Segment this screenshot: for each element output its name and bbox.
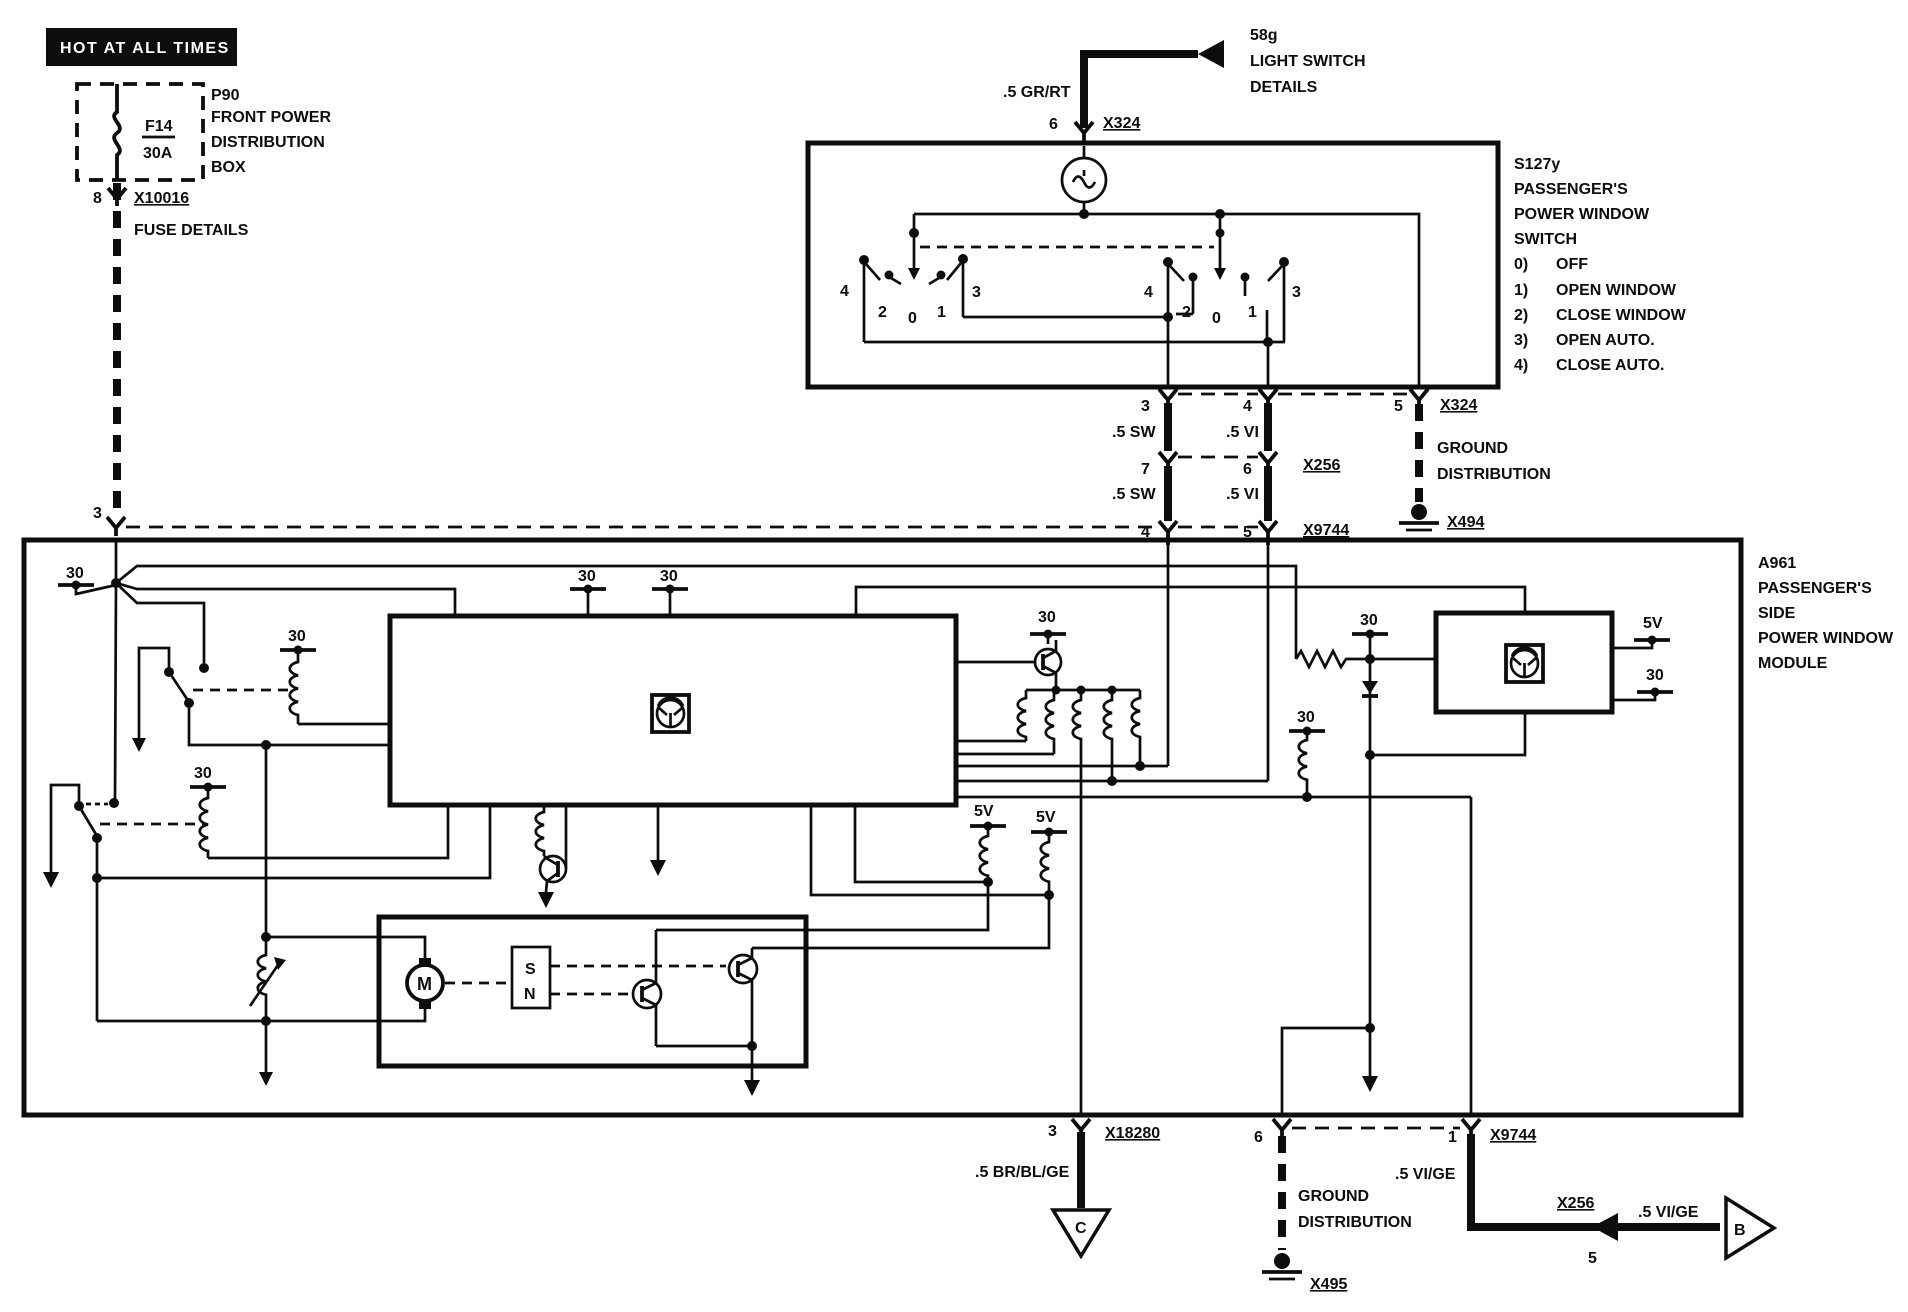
svg-text:30: 30 (578, 568, 596, 585)
svg-text:X9744: X9744 (1303, 522, 1349, 539)
wire: node down to ground tie (1369, 755, 1372, 1028)
svg-text:3: 3 (1292, 284, 1301, 301)
svg-text:1: 1 (937, 304, 946, 321)
connector X324 pin6 symbol (1075, 122, 1093, 143)
wire: node to logic box bottom (1370, 712, 1525, 755)
svg-text:S127y: S127y (1514, 156, 1560, 173)
wire: .5 VI segment (pin4 to X256) (1264, 403, 1272, 451)
svg-text:CLOSE WINDOW: CLOSE WINDOW (1556, 307, 1687, 324)
arrow on .5 VI/GE wire (1592, 1213, 1618, 1241)
svg-text:OPEN WINDOW: OPEN WINDOW (1556, 282, 1677, 299)
arrow terminal below Q2 (538, 892, 554, 908)
wire: coil K1 to controller (298, 723, 390, 726)
wire: T1 collector/emitter rail (655, 930, 658, 1046)
wire: arm output down to motor bottom rail (96, 878, 99, 1021)
svg-text:30: 30 (1297, 709, 1315, 726)
svg-text:OFF: OFF (1556, 256, 1588, 273)
motor M1 (407, 965, 443, 1001)
wire: 58g feed (heavy) (1080, 54, 1198, 128)
svg-text:4): 4) (1514, 357, 1528, 374)
horizontal resistor R30a (1296, 651, 1436, 667)
wire: resistor top bus (1026, 689, 1140, 692)
wire: .5 VI segment (X256 to X9744) (1264, 466, 1272, 521)
wire: pin3 feed into module (115, 540, 118, 583)
wire: switch supply rail (914, 214, 1419, 387)
svg-text:OPEN AUTO.: OPEN AUTO. (1556, 332, 1655, 349)
resistor R3 (1073, 690, 1081, 752)
hall sensor S/N box (512, 947, 550, 1008)
wire: T1 emitter link to T2 emitter (656, 1045, 752, 1048)
wire: .5 SW lead inside module (pin4 X9744) (1167, 540, 1170, 766)
svg-text:0: 0 (1212, 310, 1221, 327)
wire: left wiper feed (913, 214, 916, 233)
wire: controller to 5V-right node (811, 805, 1049, 895)
off-page triangle C (1053, 1210, 1109, 1256)
wire: 30 bus lower (to controller top) (116, 583, 455, 616)
svg-text:X10016: X10016 (134, 190, 189, 207)
wire: controller to 5V-left node (855, 805, 988, 882)
node: ground tie junction (1365, 1023, 1375, 1033)
svg-text:X324: X324 (1103, 115, 1140, 132)
svg-text:S: S (525, 961, 536, 978)
svg-text:CLOSE AUTO.: CLOSE AUTO. (1556, 357, 1664, 374)
svg-text:.5 VI/GE: .5 VI/GE (1638, 1204, 1699, 1221)
wire: relay2 mechanical link (dashed) (100, 823, 204, 826)
svg-text:C: C (1075, 1220, 1087, 1237)
right wiper arm (1219, 214, 1222, 268)
arrow terminal below relay1 pivot lead (132, 738, 146, 752)
svg-text:POWER WINDOW: POWER WINDOW (1514, 206, 1650, 223)
wire: left contact 3 drop (962, 263, 965, 317)
wire: R1 to controller (956, 740, 1026, 743)
wire: .5 SW segment (pin3 to X256) (1164, 403, 1172, 451)
wire: T2 emitter down through box (751, 980, 754, 1066)
wire: .5 SW segment (X256 to X9744) (1164, 466, 1172, 521)
wire: Q1 base from controller (956, 661, 1035, 664)
resistor R1 (1018, 690, 1026, 741)
svg-text:5V: 5V (1643, 615, 1663, 632)
svg-text:PASSENGER'S: PASSENGER'S (1514, 181, 1628, 198)
svg-text:X256: X256 (1303, 457, 1340, 474)
arrow terminal on stub (259, 1072, 273, 1086)
svg-text:DISTRIBUTION: DISTRIBUTION (1437, 466, 1551, 483)
svg-text:30: 30 (194, 765, 212, 782)
wire: 30 bus upper (to horizontal resistor) (116, 566, 1296, 659)
wire: mechanical link (dashed) (920, 246, 1214, 249)
resistor R2 (1046, 690, 1054, 754)
svg-text:30: 30 (1360, 612, 1378, 629)
svg-text:6: 6 (1254, 1129, 1263, 1146)
wire: R5 line controller to pin4 lead (956, 765, 1168, 768)
transistor T1 (633, 980, 661, 1008)
svg-text:.5 SW: .5 SW (1112, 486, 1156, 503)
arrow terminal below controller stub (650, 860, 666, 876)
relay 1 arm (169, 672, 189, 702)
svg-text:6: 6 (1243, 461, 1252, 478)
wire: Q1 emitter to resistor bus (1055, 673, 1058, 690)
wire: relay2 pivot lead to arrow (51, 785, 79, 872)
wire: 5V-right node to T2 collector (752, 895, 1049, 948)
wire: fused 30 feed (heavy dashed) (113, 183, 121, 516)
svg-text:3: 3 (972, 284, 981, 301)
svg-text:.5 GR/RT: .5 GR/RT (1003, 84, 1071, 101)
wire: .5 VI lead inside module (pin5 X9744) (1267, 540, 1270, 781)
right switch contact 3 (1279, 257, 1289, 267)
wire: T2 collector (751, 948, 754, 958)
wire: right4 drop to pin3 (1167, 266, 1170, 317)
resistor R4 (1104, 690, 1112, 781)
wire: R3 drop to pin 3 X18280 (1080, 752, 1083, 1115)
relay 1 pivot contact (164, 667, 174, 677)
right switch contact 2 (1189, 273, 1198, 282)
connector X324 pins below box (1159, 389, 1177, 406)
svg-text:N: N (524, 986, 536, 1003)
svg-text:F14: F14 (145, 118, 173, 135)
svg-text:DISTRIBUTION: DISTRIBUTION (1298, 1214, 1412, 1231)
left switch contact 3 (958, 254, 968, 264)
svg-text:30: 30 (1038, 609, 1056, 626)
relay 2 pivot contact (74, 801, 84, 811)
wire: pin3 lead inside S127y (1167, 317, 1170, 387)
svg-text:2: 2 (1182, 304, 1191, 321)
svg-text:4: 4 (1144, 284, 1153, 301)
svg-text:DETAILS: DETAILS (1250, 79, 1318, 96)
svg-text:BOX: BOX (211, 159, 246, 176)
transistor Q2 (540, 856, 566, 882)
svg-text:8: 8 (93, 190, 102, 207)
wire: relay1 arm output to controller (189, 703, 390, 745)
relay 1 fixed contact (199, 663, 209, 673)
svg-text:P90: P90 (211, 87, 240, 104)
wire: motor top rail (266, 937, 425, 958)
svg-text:SIDE: SIDE (1758, 605, 1796, 622)
ground X494 (1411, 504, 1427, 520)
svg-text:1: 1 (1448, 1129, 1457, 1146)
wire: lamp leads (1083, 146, 1086, 214)
lamp (switch illumination) (1062, 158, 1106, 202)
svg-text:.5 BR/BL/GE: .5 BR/BL/GE (975, 1164, 1070, 1181)
wire: Q1 collector (1055, 640, 1058, 651)
svg-text:30A: 30A (143, 145, 173, 162)
svg-text:4: 4 (1243, 398, 1252, 415)
wire: ground distribution drop pin6 (heavy dashed) (1278, 1136, 1286, 1250)
svg-text:6: 6 (1049, 116, 1058, 133)
wire: controller stub to arrow (657, 805, 660, 860)
wire: connector X9744 dashed link to pin 4 (126, 526, 1160, 529)
wire: link left4 to right3 (H2) (864, 341, 1285, 344)
svg-text:M: M (417, 974, 432, 994)
node: tap to motor bridge (261, 740, 271, 750)
resistor R9 (above Q2) (536, 805, 544, 856)
left switch contact 1 (937, 271, 946, 280)
wire: coil K2 to controller bottom (208, 805, 448, 858)
svg-text:GROUND: GROUND (1298, 1188, 1369, 1205)
svg-text:1): 1) (1514, 282, 1528, 299)
svg-text:1: 1 (1248, 304, 1257, 321)
svg-text:0: 0 (908, 310, 917, 327)
svg-text:7: 7 (1141, 461, 1150, 478)
wire: relay1 mechanical link (dashed) (193, 689, 292, 692)
wire: motor bottom rail (97, 1008, 425, 1021)
wire: 5V-left node to T1 collector (656, 882, 988, 930)
svg-text:X495: X495 (1310, 1276, 1347, 1293)
arrow to light switch details (1198, 40, 1224, 68)
svg-text:30: 30 (660, 568, 678, 585)
left switch contact 2 (885, 271, 894, 280)
left wiper arm (913, 233, 916, 268)
wire: junction down to relay2 fixed contact (115, 583, 116, 800)
wire: X9744 connector dashed outline (bottom) (1292, 1127, 1460, 1130)
svg-text:.5 SW: .5 SW (1112, 424, 1156, 441)
connector X256 pins (1159, 452, 1177, 470)
wire: arm output to controller bottom (97, 805, 490, 878)
label: HOT AT ALL TIMES box (46, 28, 237, 66)
relay coil K2 (200, 787, 208, 858)
transistor T2 (729, 955, 757, 983)
svg-text:FUSE DETAILS: FUSE DETAILS (134, 222, 249, 239)
node: right wiper junction (1215, 209, 1225, 219)
svg-text:X256: X256 (1557, 1195, 1594, 1212)
resistor R5 (1132, 690, 1140, 766)
wire: Q2 collector (544, 856, 546, 858)
svg-text:30: 30 (288, 628, 306, 645)
svg-text:5V: 5V (1036, 809, 1056, 826)
transistor Q1 (1035, 649, 1061, 675)
connector X9744 pin3 symbol (107, 517, 125, 536)
wire: stub below ground tie (1369, 1028, 1372, 1076)
svg-text:3: 3 (1048, 1123, 1057, 1140)
svg-text:GROUND: GROUND (1437, 440, 1508, 457)
fuse box P90 (dashed border) (77, 84, 203, 180)
ground X495 (1274, 1253, 1290, 1269)
variable resistor RV1 (258, 937, 266, 1021)
node: logic box lower feed (1365, 750, 1375, 760)
wire: relay1 pivot lead to arrow (139, 648, 169, 738)
svg-text:X324: X324 (1440, 397, 1477, 414)
svg-text:2: 2 (878, 304, 887, 321)
wire: pin1 drop (1470, 797, 1473, 1115)
svg-text:FRONT POWER: FRONT POWER (211, 109, 331, 126)
wire: tap down to motor top rail (265, 745, 268, 937)
wire: S output (dashed) to T2 base (550, 965, 726, 968)
right switch contact 4 (1163, 257, 1173, 267)
wire: controller low line to pin1 (956, 796, 1471, 799)
svg-text:3: 3 (93, 505, 102, 522)
svg-text:DISTRIBUTION: DISTRIBUTION (211, 134, 325, 151)
svg-text:3: 3 (1141, 398, 1150, 415)
wire: X324 connector dashed outline (1178, 393, 1258, 396)
wire: pin4 lead inside S127y (1267, 342, 1270, 387)
relay 2 fixed contact (109, 798, 119, 808)
relay 2 contact gap (dashes) (86, 803, 108, 806)
wire: N output (dashed) to T1 base (550, 993, 632, 996)
svg-text:MODULE: MODULE (1758, 655, 1828, 672)
svg-text:B: B (1734, 1222, 1746, 1239)
svg-text:A961: A961 (1758, 555, 1796, 572)
svg-text:.5 VI/GE: .5 VI/GE (1395, 1166, 1456, 1183)
wire: left contact 4 drop (863, 264, 866, 342)
diode D1 (1369, 659, 1372, 755)
svg-text:X9744: X9744 (1490, 1127, 1536, 1144)
node: 30 diode node (1365, 654, 1375, 664)
svg-text:30: 30 (66, 565, 84, 582)
svg-text:.5 VI: .5 VI (1226, 424, 1259, 441)
svg-text:30: 30 (1646, 667, 1664, 684)
left switch contact 4 (859, 255, 869, 265)
wire: ground tie to pin 6 (1282, 1028, 1370, 1115)
node: lamp junction (1079, 209, 1089, 219)
wire: .5 VI/GE to off-page B (heavy) (1467, 1134, 1720, 1227)
connector X10016 (108, 188, 126, 206)
svg-text:PASSENGER'S: PASSENGER'S (1758, 580, 1872, 597)
svg-text:2): 2) (1514, 307, 1528, 324)
wire: Q2 emitter stub (546, 881, 547, 892)
wire: stub below motor bottom rail (265, 1021, 268, 1072)
wire: 30 terminal to junction (76, 585, 116, 594)
svg-text:HOT AT ALL TIMES: HOT AT ALL TIMES (60, 40, 230, 57)
svg-text:X494: X494 (1447, 514, 1484, 531)
relay coil K1 (290, 650, 298, 724)
wire: R4 line controller to pin5 lead (956, 780, 1268, 783)
wire: R2 to controller (956, 753, 1054, 756)
wire: link left3 to right4 (H1) (963, 316, 1168, 319)
svg-text:4: 4 (840, 283, 849, 300)
relay 2 arm (79, 806, 97, 836)
svg-text:5: 5 (1588, 1250, 1597, 1267)
wire: Q2 base from controller (565, 805, 568, 869)
connector X9744 pins 4 5 (1159, 521, 1177, 545)
wire: ground distribution drop from X324 pin5 (heavy dashed) (1415, 404, 1423, 502)
wire: controller to right logic box feed (856, 587, 1525, 616)
logic box (right, with logo) (1436, 613, 1612, 712)
wire: emitter stub below box (751, 1066, 754, 1080)
svg-text:LIGHT SWITCH: LIGHT SWITCH (1250, 53, 1366, 70)
svg-text:POWER WINDOW: POWER WINDOW (1758, 630, 1894, 647)
controller box (central) (390, 616, 956, 805)
wire: motor to hall sensor (dashed) (445, 982, 510, 985)
right switch contact 1 (1241, 273, 1250, 282)
svg-text:.5 VI: .5 VI (1226, 486, 1259, 503)
fuse F14 symbol (114, 84, 120, 180)
module A961 box (24, 540, 1741, 1115)
svg-text:58g: 58g (1250, 27, 1278, 44)
arrow terminal below ground tie (1362, 1076, 1378, 1092)
wire: .5 BR/BL/GE drop (heavy) (1077, 1132, 1085, 1208)
controller logo (window motor symbol) (652, 695, 689, 732)
wire: relay2 arm output (96, 838, 99, 878)
svg-text:0): 0) (1514, 256, 1528, 273)
wire: junction to relay1 fixed contact (116, 583, 204, 663)
off-page triangle B (1726, 1198, 1774, 1258)
svg-text:SWITCH: SWITCH (1514, 231, 1577, 248)
node: 30 distribution star junction (111, 578, 121, 588)
arrow terminal below motor box (744, 1080, 760, 1096)
svg-text:3): 3) (1514, 332, 1528, 349)
svg-text:X18280: X18280 (1105, 1125, 1160, 1142)
arrow terminal below relay2 pivot lead (43, 872, 59, 888)
resistor R6 (1299, 731, 1307, 797)
svg-text:5: 5 (1394, 398, 1403, 415)
S127y switch box (808, 143, 1498, 387)
svg-text:5V: 5V (974, 803, 994, 820)
motor assembly box (379, 917, 806, 1066)
